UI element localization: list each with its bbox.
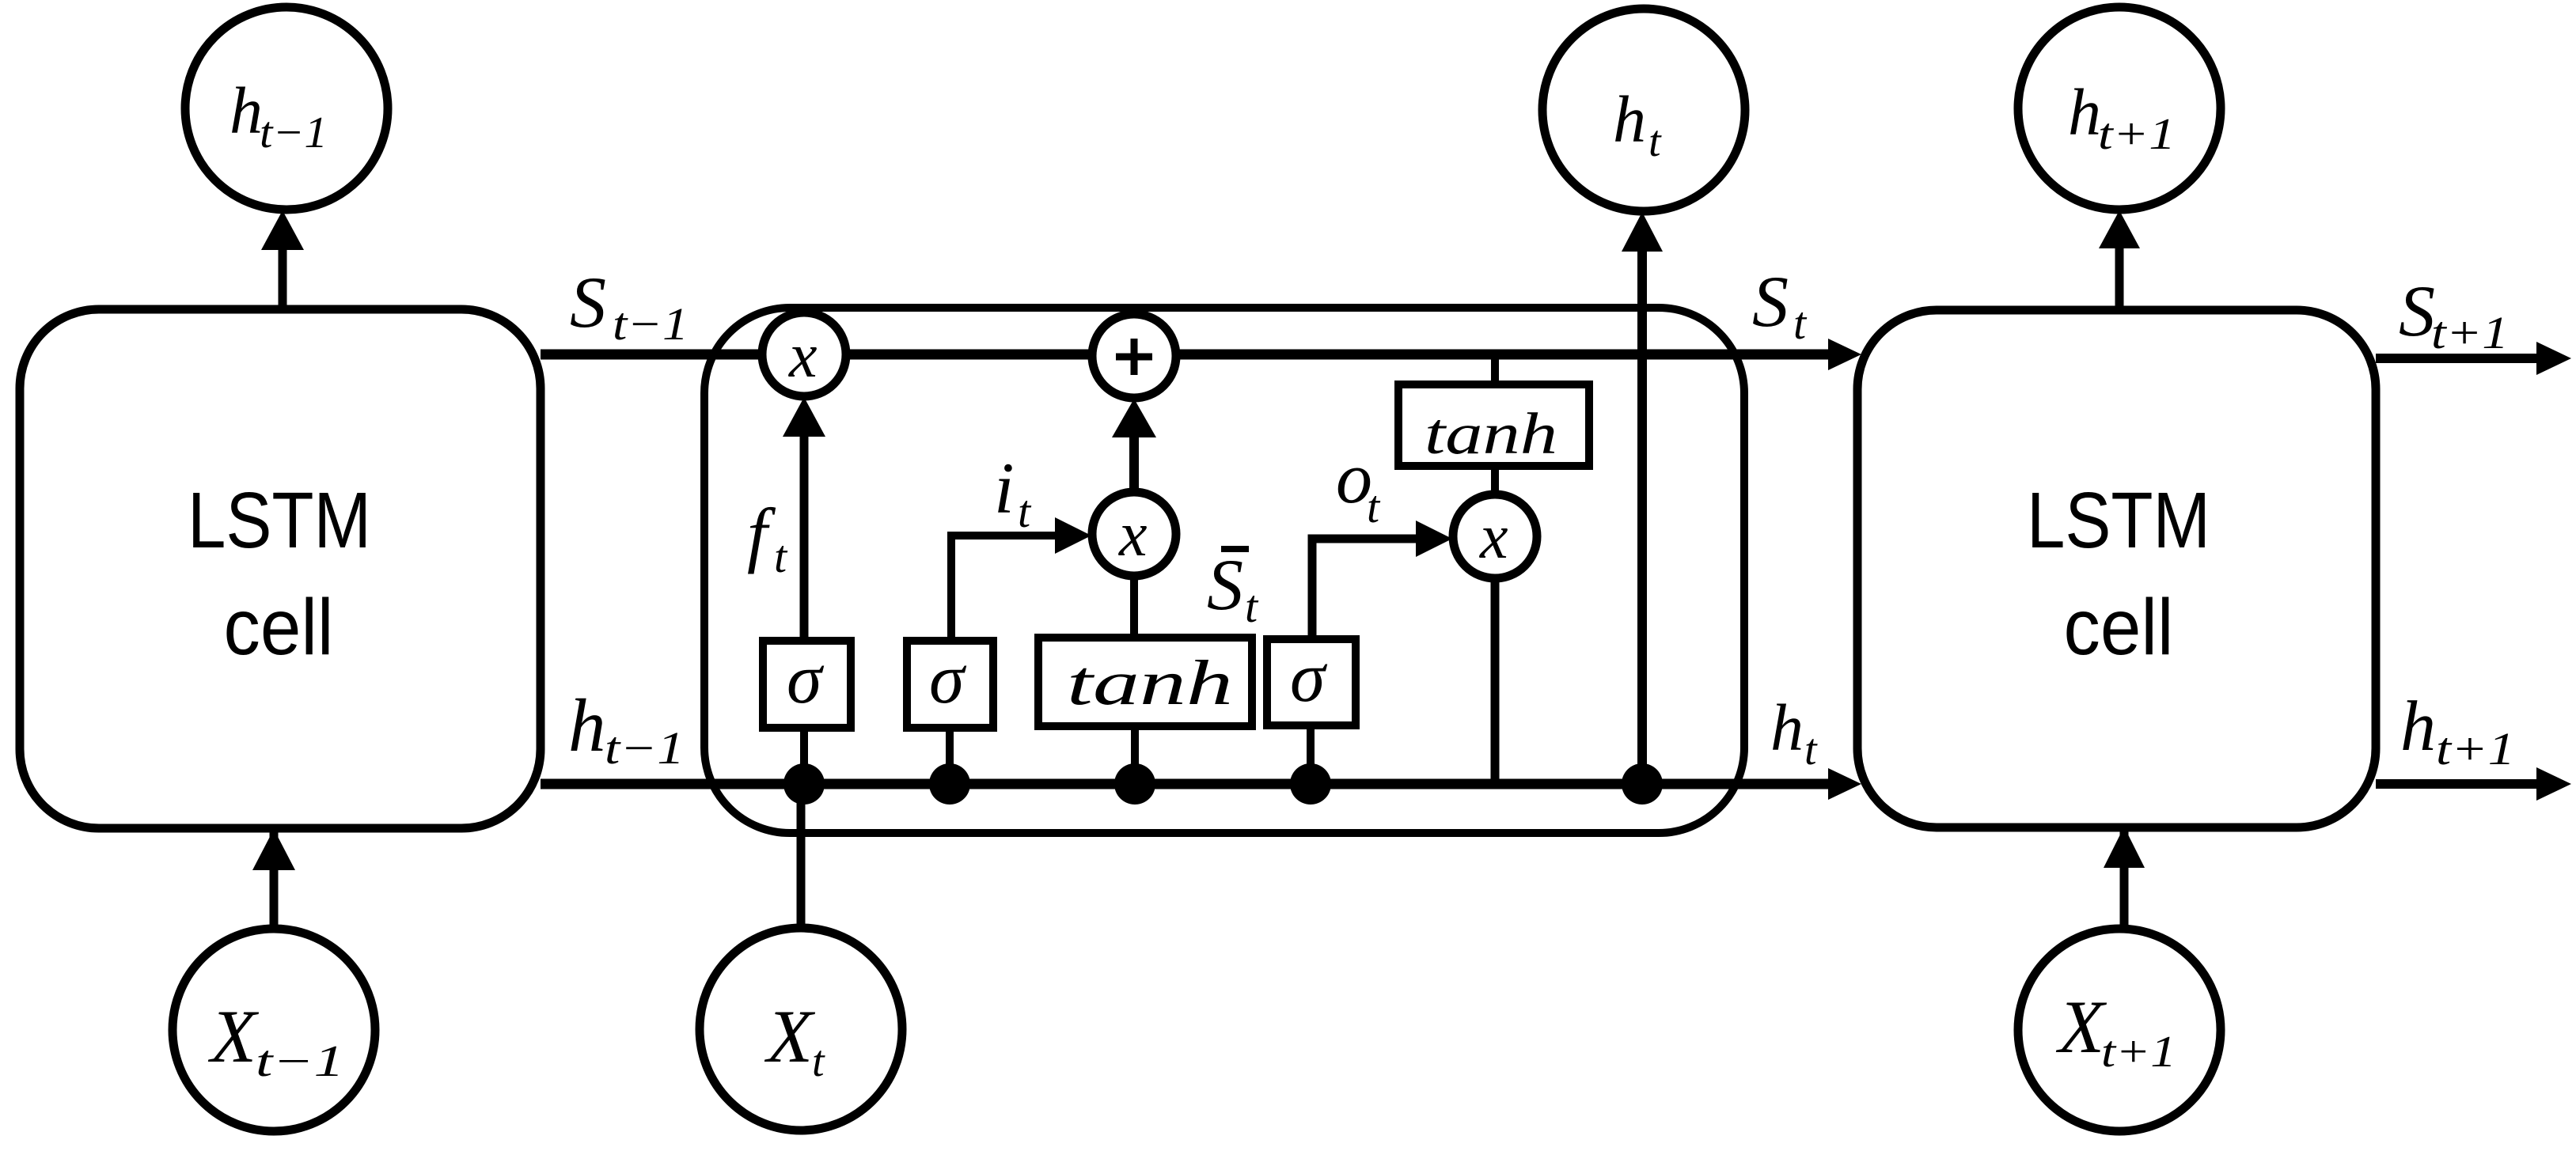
svg-text:x: x: [1479, 502, 1508, 572]
svg-text:t+1: t+1: [2436, 723, 2515, 774]
svg-text:t: t: [1804, 725, 1818, 774]
svg-text:h: h: [1613, 83, 1646, 157]
svg-text:x: x: [788, 321, 818, 391]
svg-text:h: h: [1770, 691, 1804, 765]
svg-text:t: t: [1018, 486, 1032, 537]
svg-text:S: S: [1207, 544, 1243, 625]
svg-text:t+1: t+1: [2101, 1028, 2176, 1077]
svg-text:t−1: t−1: [260, 108, 328, 157]
svg-text:LSTM: LSTM: [188, 476, 371, 565]
svg-text:X: X: [207, 994, 260, 1078]
svg-text:σ: σ: [1290, 638, 1328, 717]
svg-text:t−1: t−1: [613, 298, 689, 350]
svg-text:X: X: [2055, 985, 2107, 1069]
svg-text:h: h: [230, 74, 263, 148]
svg-text:x: x: [1118, 500, 1148, 570]
svg-text:t: t: [1793, 297, 1808, 349]
svg-text:cell: cell: [224, 583, 334, 672]
svg-text:S: S: [1752, 261, 1789, 342]
svg-text:t: t: [1648, 117, 1662, 166]
svg-text:cell: cell: [2064, 583, 2174, 672]
svg-text:t+1: t+1: [2431, 307, 2509, 358]
svg-text:tanh: tanh: [1067, 649, 1233, 718]
svg-text:h: h: [2068, 76, 2101, 150]
svg-text:i: i: [994, 448, 1015, 528]
svg-text:t: t: [812, 1037, 825, 1086]
svg-text:h: h: [2400, 687, 2436, 766]
svg-text:S: S: [2399, 271, 2435, 351]
svg-text:h: h: [568, 683, 606, 767]
svg-text:t−1: t−1: [605, 722, 685, 774]
svg-text:S: S: [570, 262, 606, 343]
svg-text:LSTM: LSTM: [2027, 476, 2210, 565]
svg-text:t: t: [1367, 481, 1381, 532]
svg-text:t: t: [774, 531, 788, 582]
svg-text:X: X: [764, 994, 816, 1078]
svg-text:σ: σ: [787, 640, 825, 718]
svg-text:tanh: tanh: [1425, 402, 1557, 467]
svg-text:t−1: t−1: [256, 1037, 344, 1086]
svg-text:t+1: t+1: [2098, 110, 2176, 159]
svg-text:t: t: [1245, 581, 1259, 632]
svg-text:σ: σ: [929, 640, 967, 718]
